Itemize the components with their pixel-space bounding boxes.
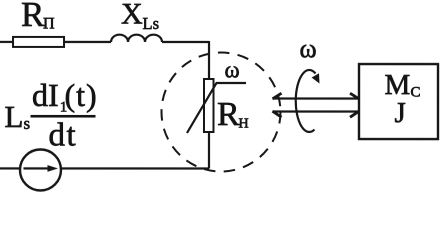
resistor R_P rectangle bbox=[13, 37, 64, 47]
shaft arrowhead bottom-right (harpoon barb) bbox=[350, 111, 359, 117]
shaft line top bbox=[272, 97, 359, 99]
svg-text:X: X bbox=[121, 0, 143, 30]
svg-text:C: C bbox=[410, 85, 420, 101]
svg-text:s: s bbox=[23, 114, 30, 133]
wire right vertical upper bbox=[208, 41, 210, 79]
current source circle bbox=[20, 149, 61, 190]
motor load box bbox=[359, 64, 438, 139]
wire resistor to inductor bbox=[64, 41, 111, 43]
svg-text:dt: dt bbox=[48, 117, 77, 153]
svg-text:Н: Н bbox=[238, 117, 248, 132]
svg-text:dI: dI bbox=[32, 77, 59, 113]
svg-text:ω: ω bbox=[300, 34, 317, 63]
svg-text:L: L bbox=[4, 99, 23, 134]
rotation arrow arc bbox=[296, 70, 316, 132]
variable resistor arrow bbox=[187, 83, 246, 133]
shaft arrowhead bottom-left (harpoon barb) bbox=[272, 111, 281, 117]
current source arrowhead bbox=[23, 165, 58, 172]
wire bottom right bbox=[61, 167, 209, 169]
shaft line bottom bbox=[272, 110, 359, 112]
svg-text:Ls: Ls bbox=[143, 14, 160, 33]
shaft arrowhead top-left (harpoon barb) bbox=[272, 93, 281, 99]
svg-text:(t): (t) bbox=[64, 77, 97, 113]
svg-text:R: R bbox=[217, 96, 240, 133]
inductor X_Ls coil bbox=[111, 35, 162, 42]
shaft arrowhead top-right (harpoon barb) bbox=[350, 93, 359, 99]
fraction bar bbox=[30, 115, 95, 118]
resistor R_H rectangle bbox=[204, 79, 214, 132]
svg-text:J: J bbox=[394, 97, 405, 129]
wire right vertical lower bbox=[208, 132, 210, 169]
svg-text:ω: ω bbox=[225, 58, 240, 83]
wire bottom left bbox=[0, 167, 21, 169]
svg-text:R: R bbox=[21, 0, 45, 34]
dashed circle (machine boundary) bbox=[161, 52, 280, 171]
rotation arrowhead bbox=[312, 73, 320, 83]
svg-text:П: П bbox=[43, 15, 55, 32]
wire inductor to corner bbox=[162, 41, 209, 43]
wire top-left to resistor bbox=[0, 41, 13, 43]
